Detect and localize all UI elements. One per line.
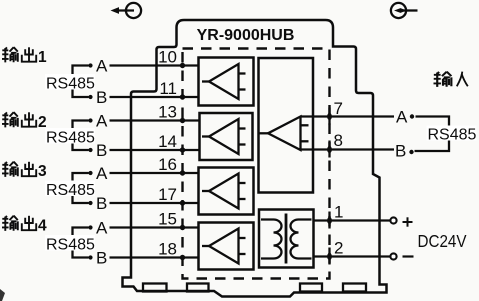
junction terminal 14 — [180, 147, 185, 152]
terminal dot A input — [410, 114, 414, 118]
wire 16 — [110, 172, 199, 174]
label 输出2 — [2, 112, 47, 131]
junction terminal 15 — [180, 225, 185, 230]
DIN foot 2 — [187, 284, 209, 292]
svg-text:11: 11 — [159, 79, 177, 98]
transformer box T1 — [259, 210, 314, 268]
terminal mark 7 — [327, 108, 332, 125]
DIN foot 1 — [143, 284, 167, 292]
buffer box U1 — [199, 58, 254, 106]
label RS485 output1 — [45, 74, 95, 90]
terminal dot A2 — [88, 118, 92, 122]
svg-text:18: 18 — [158, 240, 177, 259]
terminal dot B4 — [88, 255, 92, 259]
svg-text:10: 10 — [158, 48, 177, 67]
wire 17 — [110, 202, 199, 204]
minus sign — [403, 255, 414, 257]
terminal circle - — [390, 253, 396, 259]
direction symbol right (input flow) — [391, 3, 418, 18]
label RS485 input — [427, 126, 477, 141]
wire 7 — [301, 115, 395, 117]
module outline — [123, 20, 387, 297]
svg-text:3: 3 — [38, 163, 47, 180]
svg-text:8: 8 — [334, 131, 343, 150]
buffer box U4 — [199, 223, 254, 270]
label RS485 output4 — [45, 235, 95, 251]
RS485 cable bracket input — [415, 117, 450, 152]
wire 1 — [314, 219, 391, 221]
RS485 cable bracket output3 — [73, 173, 89, 203]
junction terminal 11 — [180, 94, 185, 99]
svg-text:B: B — [96, 194, 107, 213]
junction terminal 18 — [180, 255, 185, 260]
terminal dot A4 — [88, 225, 92, 229]
svg-text:RS485: RS485 — [46, 76, 95, 93]
buffer U3 triangle — [202, 174, 246, 209]
transformer T1 windings — [261, 214, 312, 264]
svg-text:16: 16 — [158, 155, 177, 174]
junction terminal 17 — [180, 200, 185, 205]
svg-text:A: A — [96, 164, 108, 183]
main driver box U5 — [259, 58, 314, 193]
dashed internal boundary — [183, 49, 330, 279]
terminal dot B2 — [88, 148, 92, 152]
terminal mark 2 — [327, 248, 332, 265]
junction terminal 10 — [180, 63, 185, 68]
buffer box U3 — [199, 168, 254, 215]
buffer U2 triangle — [202, 119, 246, 154]
svg-text:2: 2 — [334, 239, 343, 258]
svg-text:A: A — [96, 111, 108, 130]
svg-text:RS485: RS485 — [46, 237, 95, 254]
label 输出3 — [2, 162, 47, 180]
label RS485 output2 — [45, 128, 95, 144]
buffer U4 triangle — [202, 229, 246, 264]
wire 8 — [301, 148, 395, 150]
RS485 cable bracket output2 — [73, 121, 89, 151]
wire 18 — [110, 256, 199, 258]
driver U5 triangle — [259, 117, 309, 151]
wire 13 — [110, 119, 200, 121]
svg-text:A: A — [396, 107, 408, 126]
wire 15 — [110, 226, 199, 228]
label RS485 output3 — [45, 181, 95, 197]
svg-text:B: B — [96, 248, 107, 267]
svg-text:15: 15 — [158, 210, 177, 229]
plus sign — [403, 217, 413, 226]
buffer box U2 — [200, 113, 253, 160]
wire 10 — [110, 64, 199, 66]
svg-text:DC24V: DC24V — [418, 231, 467, 251]
terminal dot B3 — [88, 201, 92, 205]
svg-text:RS485: RS485 — [428, 127, 477, 144]
label 输出4 — [2, 216, 47, 235]
terminal mark 8 — [327, 141, 332, 158]
RS485 cable bracket output4 — [73, 228, 89, 258]
terminal mark 1 — [327, 212, 332, 229]
scan artifact bottom-left — [0, 289, 5, 301]
wire 2 — [314, 255, 391, 257]
svg-text:1: 1 — [334, 203, 343, 222]
svg-text:RS485: RS485 — [46, 130, 95, 147]
svg-text:B: B — [395, 141, 406, 160]
terminal dot B1 — [88, 95, 92, 99]
wire 11 — [110, 96, 199, 98]
svg-text:4: 4 — [38, 218, 47, 235]
terminal dot A3 — [88, 171, 92, 175]
wire 14 — [110, 149, 200, 151]
svg-text:17: 17 — [158, 185, 177, 204]
buffer U1 triangle — [202, 64, 246, 99]
RS485 cable bracket output1 — [73, 66, 89, 98]
svg-text:A: A — [96, 218, 108, 237]
junction terminal 16 — [180, 170, 185, 175]
svg-text:A: A — [96, 56, 108, 75]
terminal dot A1 — [88, 63, 92, 67]
svg-text:13: 13 — [158, 103, 177, 122]
DIN foot 3 — [300, 284, 322, 292]
label 输出1 — [2, 47, 47, 66]
svg-text:14: 14 — [158, 132, 177, 151]
junction terminal 13 — [180, 118, 185, 123]
svg-text:B: B — [96, 141, 107, 160]
DIN foot 4 — [343, 284, 366, 292]
svg-text:7: 7 — [334, 99, 343, 118]
terminal circle + — [390, 217, 396, 223]
svg-text:1: 1 — [38, 49, 47, 66]
svg-text:B: B — [96, 88, 107, 107]
svg-text:YR-9000HUB: YR-9000HUB — [197, 27, 295, 44]
svg-text:RS485: RS485 — [46, 182, 95, 199]
terminal dot B input — [409, 150, 413, 154]
label 输入 — [434, 72, 468, 87]
direction symbol left (output flow) — [111, 3, 142, 18]
